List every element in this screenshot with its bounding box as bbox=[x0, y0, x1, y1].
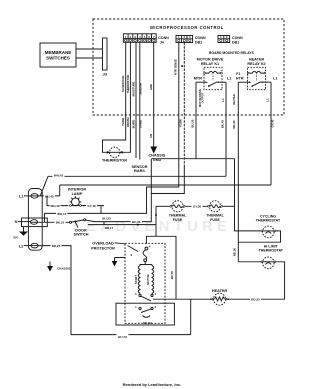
wire hi limit feed bbox=[238, 261, 261, 263]
svg-text:MEMBRANE: MEMBRANE bbox=[45, 50, 72, 55]
svg-text:BK,25: BK,25 bbox=[56, 221, 65, 225]
svg-text:GY/RD: GY/RD bbox=[138, 120, 142, 129]
membrane switches box bbox=[40, 43, 76, 67]
overload protector leader bbox=[115, 243, 126, 244]
connector J3 bbox=[103, 38, 108, 70]
wire L2 to bottom bbox=[38, 246, 191, 335]
terminal N bbox=[30, 220, 37, 225]
svg-text:THERMOSTAT: THERMOSTAT bbox=[256, 219, 281, 223]
wire J4 pin2 to thermistor bbox=[121, 42, 130, 152]
svg-text:OUTPUT: OUTPUT bbox=[201, 92, 205, 103]
J4 wire name labels rotated bbox=[121, 75, 153, 97]
svg-text:YL/RD: YL/RD bbox=[121, 118, 125, 126]
svg-text:1: 1 bbox=[135, 305, 137, 309]
wire heater to L2 node bbox=[191, 298, 212, 300]
wire L1 diagonal bbox=[40, 176, 48, 196]
label BU,43 bbox=[44, 194, 55, 198]
wire motor output bbox=[153, 298, 191, 300]
svg-text:RD,36: RD,36 bbox=[233, 248, 237, 256]
junction square on DB2 wire bbox=[181, 65, 183, 67]
wire lamp feed drop bbox=[47, 196, 66, 206]
wire J4 pin3 sensor bar bbox=[135, 42, 137, 158]
connector CONN J4 bbox=[123, 34, 169, 45]
wire hi limit to heater bbox=[227, 262, 285, 299]
wire J4 pin7 ground bbox=[153, 42, 155, 146]
svg-text:SWITCHES: SWITCHES bbox=[46, 56, 70, 61]
svg-text:RD,35: RD,35 bbox=[251, 298, 260, 302]
svg-text:BU,30: BU,30 bbox=[190, 119, 194, 127]
svg-text:MOTOR DRIVE: MOTOR DRIVE bbox=[197, 58, 224, 62]
svg-text:3: 3 bbox=[155, 292, 157, 296]
svg-text:WH,49: WH,49 bbox=[50, 204, 60, 208]
wire K1 motor drive output drop bbox=[195, 82, 197, 159]
thermal fuse 1 bbox=[170, 201, 185, 212]
svg-text:RD/WH: RD/WH bbox=[126, 117, 130, 126]
wire DB2 pin2 staircase to door line B bbox=[183, 43, 185, 166]
wire cycling output to heater node bbox=[238, 231, 280, 242]
watermark bbox=[73, 218, 232, 235]
wire N to door switch bbox=[38, 221, 70, 223]
svg-text:4: 4 bbox=[149, 245, 151, 249]
motor dashed box bbox=[125, 243, 165, 323]
svg-text:THERMISTOR: THERMISTOR bbox=[102, 159, 127, 163]
svg-text:2: 2 bbox=[155, 305, 157, 309]
stub between door lines bbox=[103, 222, 105, 225]
svg-text:L2: L2 bbox=[19, 243, 24, 248]
wire door line B to fuse node bbox=[88, 224, 156, 226]
svg-text:CHASSIS: CHASSIS bbox=[57, 267, 70, 271]
hi limit thermostat bbox=[261, 257, 276, 269]
overload protector element bbox=[131, 245, 151, 262]
motor switch solid box bbox=[116, 303, 174, 325]
svg-text:FUSE: FUSE bbox=[210, 218, 220, 222]
wire between fuses bbox=[185, 205, 208, 207]
svg-text:GND: GND bbox=[149, 84, 153, 90]
svg-text:PROTECTOR: PROTECTOR bbox=[91, 247, 115, 251]
svg-text:GN: GN bbox=[13, 236, 17, 240]
chassis ground symbol (board) bbox=[150, 147, 157, 154]
svg-text:BARS: BARS bbox=[134, 169, 145, 173]
svg-text:BOARD MOUNTED RELAYS: BOARD MOUNTED RELAYS bbox=[209, 51, 255, 55]
wire fuse2 output tee bbox=[223, 205, 235, 207]
svg-text:RD,17: RD,17 bbox=[105, 226, 114, 230]
svg-text:MTR: MTR bbox=[194, 77, 202, 81]
label BU,25 bbox=[101, 216, 112, 220]
wire color labels below control board bbox=[179, 119, 275, 129]
svg-text:SENSOR: SENSOR bbox=[138, 83, 142, 95]
wire J4 pin4 sensor bar bbox=[139, 42, 141, 159]
wire membrane to J3 upper bbox=[76, 48, 103, 50]
svg-text:5: 5 bbox=[135, 292, 137, 296]
centrifugal switch upper bbox=[135, 292, 156, 301]
svg-text:MTR SENSE: MTR SENSE bbox=[173, 59, 177, 75]
neutral cross box bbox=[22, 218, 48, 227]
svg-text:MICROPROCESSOR CONTROL: MICROPROCESSOR CONTROL bbox=[150, 25, 224, 30]
wire L2 riser bbox=[190, 299, 192, 334]
label BK,25 bbox=[55, 220, 66, 224]
svg-text:WH,43: WH,43 bbox=[54, 173, 64, 177]
terminal L1 bbox=[31, 194, 38, 199]
wire junction drop to L1 node bbox=[59, 185, 61, 196]
svg-text:DB2: DB2 bbox=[195, 41, 202, 45]
label BU,36 bbox=[131, 220, 143, 224]
svg-text:N: N bbox=[15, 219, 18, 224]
svg-text:BU/RD: BU/RD bbox=[131, 120, 135, 129]
main winding bbox=[152, 266, 154, 294]
connector CONN DB2 bbox=[176, 35, 206, 44]
wire lamp return drop bbox=[100, 206, 102, 214]
wire K2 L1 drop bbox=[270, 82, 272, 185]
svg-text:FUSE: FUSE bbox=[173, 218, 183, 222]
label WH,17 bbox=[56, 211, 68, 215]
svg-text:MOISTURE: MOISTURE bbox=[131, 81, 135, 96]
svg-text:RD,25: RD,25 bbox=[52, 244, 61, 248]
terminal L2 bbox=[31, 243, 38, 248]
svg-text:Rendered by LeadVenture, Inc.: Rendered by LeadVenture, Inc. bbox=[123, 382, 181, 387]
wire K2 heater drop (to hi limit) bbox=[237, 82, 239, 262]
svg-text:L1: L1 bbox=[265, 98, 269, 102]
junction arrow on door line B bbox=[137, 224, 140, 226]
microprocessor control dashed box bbox=[93, 19, 284, 115]
thermistor bbox=[107, 147, 123, 157]
wire L1 feed horizontal bbox=[48, 175, 226, 177]
label RD,35 bbox=[250, 297, 261, 301]
svg-text:L1: L1 bbox=[273, 77, 277, 81]
neutral ground arrow bbox=[23, 227, 25, 232]
svg-text:HEATER: HEATER bbox=[232, 94, 236, 105]
svg-text:F1: F1 bbox=[236, 72, 240, 76]
wire DB2 pin1 staircase to door line A bbox=[45, 43, 179, 214]
centrifugal switch lower bbox=[135, 305, 156, 317]
thermal fuse 2 bbox=[208, 201, 223, 212]
up arrow on riser bbox=[155, 212, 157, 215]
interior lamp bbox=[50, 196, 105, 208]
svg-text:BU,25: BU,25 bbox=[102, 216, 111, 220]
label motor drive output (rotated) bbox=[198, 89, 205, 108]
wire L1 terminal to lamp node bbox=[38, 195, 60, 197]
svg-text:START: START bbox=[134, 275, 138, 284]
thermal fuse line from fuse node bbox=[156, 205, 170, 207]
svg-text:HTR: HTR bbox=[236, 77, 244, 81]
relay K2 bbox=[247, 67, 266, 89]
motor winding header bbox=[140, 262, 145, 266]
wire header to overload and motor switch bbox=[146, 236, 176, 299]
svg-text:RD,33: RD,33 bbox=[232, 120, 236, 128]
svg-text:RELAY K2: RELAY K2 bbox=[247, 62, 265, 66]
chassis ground symbol (frame) bbox=[49, 262, 51, 267]
svg-text:J3: J3 bbox=[102, 72, 107, 77]
svg-text:WH,17: WH,17 bbox=[57, 212, 67, 216]
label WH,43 bbox=[53, 173, 65, 177]
cycling thermostat bbox=[261, 226, 276, 238]
wire membrane to J3 lower bbox=[76, 57, 103, 59]
svg-text:BK,43: BK,43 bbox=[220, 120, 224, 128]
svg-text:BU,36: BU,36 bbox=[132, 220, 141, 224]
svg-text:THERMISTOR: THERMISTOR bbox=[126, 75, 130, 93]
wire bus to fuse2 output riser bbox=[151, 159, 261, 231]
door switch bbox=[70, 219, 86, 228]
svg-text:GY,36: GY,36 bbox=[193, 205, 202, 209]
svg-text:HEATER: HEATER bbox=[212, 289, 228, 293]
connector CONN DB1 bbox=[218, 35, 243, 44]
svg-text:GN: GN bbox=[149, 134, 153, 138]
label RD,25 bbox=[51, 244, 62, 248]
label BU,79 bbox=[117, 333, 129, 339]
svg-text:MOTOR: MOTOR bbox=[146, 274, 150, 284]
svg-text:TACH/DOOR: TACH/DOOR bbox=[121, 76, 125, 93]
svg-text:THERMOSTAT: THERMOSTAT bbox=[259, 249, 284, 253]
power terminal strip bbox=[28, 189, 42, 251]
wire K1 L1 drop bbox=[225, 82, 227, 176]
relay K1 bbox=[204, 67, 223, 89]
svg-text:BU,79: BU,79 bbox=[118, 335, 127, 339]
wire fuse node riser / motor feed bbox=[155, 206, 157, 236]
svg-text:BU,55: BU,55 bbox=[170, 271, 174, 279]
wire N branch up to door line A bbox=[44, 213, 46, 222]
svg-text:BU,43: BU,43 bbox=[45, 194, 54, 198]
svg-text:6: 6 bbox=[131, 253, 133, 257]
svg-text:HEATER: HEATER bbox=[249, 58, 265, 62]
svg-text:LAMP: LAMP bbox=[72, 192, 83, 196]
svg-text:L1: L1 bbox=[227, 77, 231, 81]
svg-text:GY,45: GY,45 bbox=[271, 119, 275, 127]
svg-text:GY,49: GY,49 bbox=[87, 204, 96, 208]
wire bus drop to door line A bbox=[95, 159, 151, 222]
svg-text:L1: L1 bbox=[19, 194, 24, 199]
svg-text:L1: L1 bbox=[221, 98, 225, 102]
svg-text:OVERLOAD: OVERLOAD bbox=[92, 242, 114, 246]
svg-text:DB1: DB1 bbox=[232, 41, 239, 45]
svg-text:SWITCH: SWITCH bbox=[74, 233, 89, 237]
motor frame ground bbox=[115, 257, 126, 259]
svg-text:RELAY K1: RELAY K1 bbox=[201, 62, 219, 66]
heater bbox=[210, 293, 229, 305]
svg-text:LEADVENTURE: LEADVENTURE bbox=[73, 218, 232, 235]
wire door arm to line A bbox=[86, 220, 95, 221]
svg-text:J4: J4 bbox=[160, 40, 164, 44]
start winding bbox=[138, 266, 140, 294]
svg-text:BK,52: BK,52 bbox=[143, 321, 152, 325]
J4 wire color labels rotated bbox=[121, 117, 153, 138]
wire heater relay horizontal bbox=[60, 184, 271, 186]
wire J4 pin1 to thermistor bbox=[103, 42, 126, 152]
